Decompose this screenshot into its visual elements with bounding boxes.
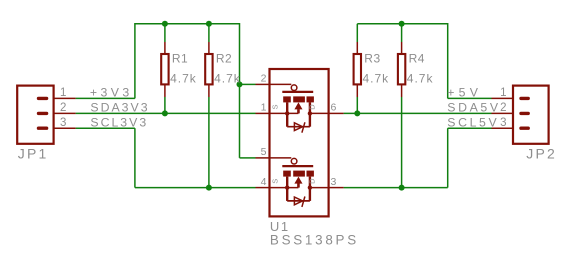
svg-text:D: D [307, 104, 316, 110]
svg-text:SCL5V: SCL5V [447, 116, 499, 130]
svg-text:3: 3 [60, 117, 66, 129]
svg-text:R1: R1 [172, 51, 188, 65]
svg-text:3: 3 [500, 117, 506, 129]
svg-text:JP1: JP1 [18, 146, 49, 162]
svg-text:+5V: +5V [447, 86, 482, 100]
svg-text:S: S [271, 179, 280, 184]
svg-text:4: 4 [261, 176, 267, 188]
svg-text:3: 3 [331, 176, 337, 188]
svg-text:4.7k: 4.7k [363, 72, 390, 86]
svg-text:SDA3V3: SDA3V3 [90, 101, 149, 115]
svg-text:2: 2 [500, 102, 506, 114]
svg-text:R3: R3 [364, 51, 380, 65]
svg-text:4.7k: 4.7k [214, 72, 241, 86]
svg-text:SDA5V: SDA5V [447, 101, 500, 115]
svg-text:1: 1 [500, 87, 506, 99]
svg-text:1: 1 [60, 87, 66, 99]
svg-text:BSS138PS: BSS138PS [270, 233, 359, 248]
svg-text:4.7k: 4.7k [170, 72, 197, 86]
svg-text:S: S [271, 104, 280, 109]
svg-text:+3V3: +3V3 [90, 86, 133, 100]
svg-text:R4: R4 [409, 51, 425, 65]
svg-text:2: 2 [261, 73, 267, 85]
svg-text:1: 1 [261, 102, 267, 114]
svg-text:R2: R2 [216, 51, 232, 65]
svg-text:4.7k: 4.7k [407, 72, 434, 86]
svg-text:JP2: JP2 [526, 146, 557, 162]
svg-text:6: 6 [331, 102, 337, 114]
svg-text:5: 5 [261, 146, 267, 158]
svg-text:D: D [307, 178, 316, 184]
svg-text:SCL3V3: SCL3V3 [90, 116, 148, 130]
svg-text:2: 2 [60, 102, 66, 114]
